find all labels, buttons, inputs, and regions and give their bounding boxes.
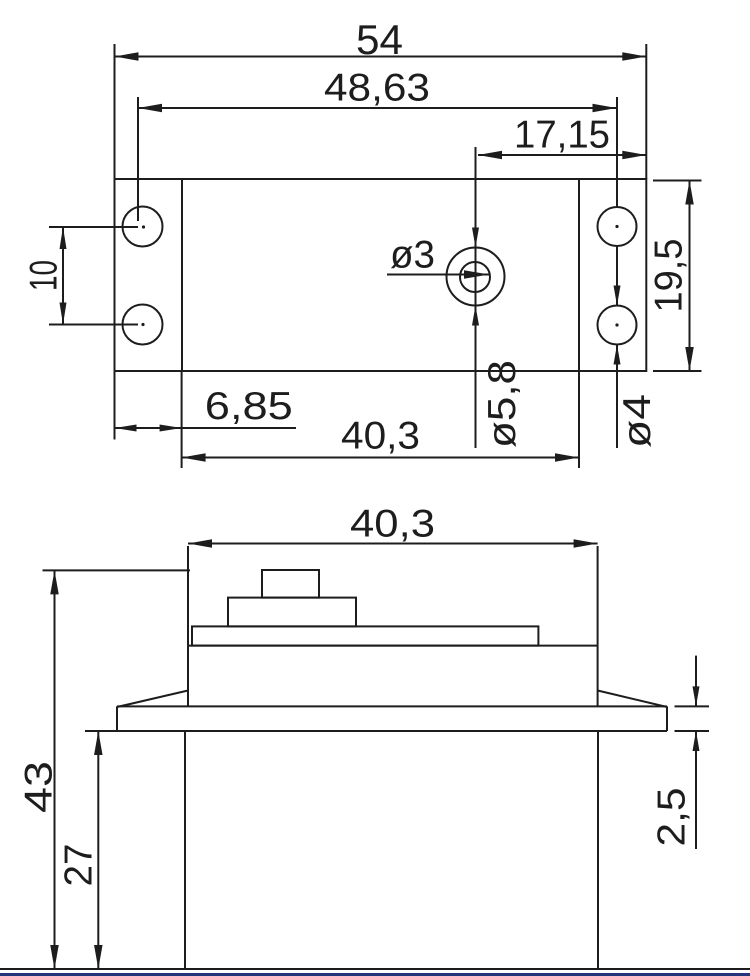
svg-text:54: 54 [356, 16, 403, 63]
svg-text:17,15: 17,15 [514, 114, 610, 157]
svg-text:19,5: 19,5 [648, 239, 691, 313]
svg-text:48,63: 48,63 [324, 67, 430, 110]
svg-text:27: 27 [58, 844, 101, 887]
svg-text:ø5,8: ø5,8 [481, 360, 524, 448]
svg-text:40,3: 40,3 [341, 415, 420, 458]
svg-text:2,5: 2,5 [651, 788, 694, 847]
svg-text:40,3: 40,3 [350, 503, 435, 546]
svg-text:ø3: ø3 [390, 234, 435, 277]
svg-text:10: 10 [23, 260, 66, 291]
svg-text:ø4: ø4 [616, 394, 659, 448]
svg-text:6,85: 6,85 [205, 385, 293, 428]
svg-text:43: 43 [17, 761, 60, 813]
